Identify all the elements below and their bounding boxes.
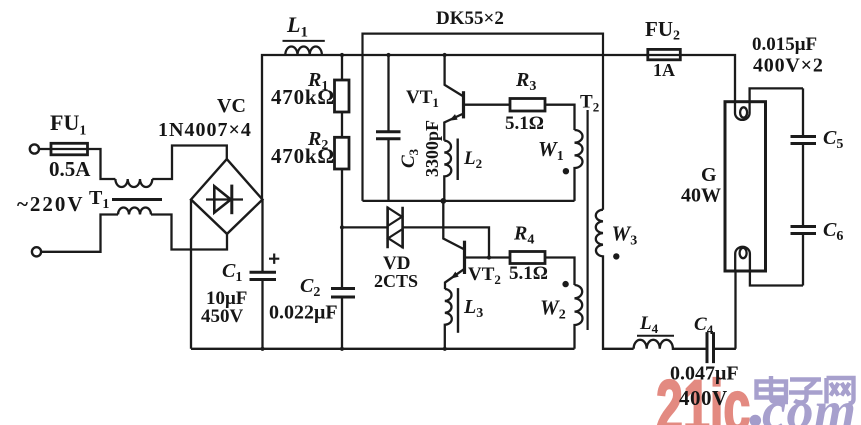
svg-text:L1: L1 — [286, 12, 308, 41]
svg-text:L2: L2 — [463, 148, 482, 171]
svg-text:com: com — [762, 381, 856, 425]
svg-text:C4: C4 — [694, 314, 714, 337]
svg-text:L3: L3 — [463, 296, 483, 321]
svg-text:FU1: FU1 — [50, 110, 86, 139]
svg-text:VT1: VT1 — [406, 87, 439, 110]
svg-text:DK55×2: DK55×2 — [436, 8, 504, 29]
svg-text:VT2: VT2 — [468, 264, 501, 287]
svg-text:G: G — [701, 164, 717, 186]
svg-text:0.5A: 0.5A — [49, 157, 91, 181]
svg-text:~220V: ~220V — [17, 192, 85, 216]
svg-text:5.1Ω: 5.1Ω — [505, 113, 544, 134]
svg-text:R4: R4 — [513, 223, 534, 248]
svg-text:T2: T2 — [580, 92, 599, 115]
svg-text:C1: C1 — [222, 260, 242, 285]
svg-text:1N4007×4: 1N4007×4 — [158, 119, 252, 141]
svg-text:C3: C3 — [398, 148, 421, 168]
svg-text:W2: W2 — [540, 296, 566, 323]
svg-text:T1: T1 — [89, 187, 109, 212]
svg-text:450V: 450V — [201, 306, 244, 327]
svg-text:VC: VC — [217, 95, 246, 117]
svg-text:0.022μF: 0.022μF — [269, 302, 338, 324]
svg-text:400V: 400V — [679, 386, 728, 410]
svg-text:FU2: FU2 — [645, 17, 680, 44]
svg-text:C2: C2 — [300, 275, 320, 300]
svg-text:400V×2: 400V×2 — [753, 55, 824, 77]
svg-text:C5: C5 — [823, 127, 843, 152]
svg-text:W1: W1 — [538, 137, 564, 164]
svg-text:5.1Ω: 5.1Ω — [509, 263, 548, 284]
svg-text:470kΩ: 470kΩ — [271, 85, 335, 109]
svg-text:0.015μF: 0.015μF — [752, 34, 817, 55]
svg-text:470kΩ: 470kΩ — [271, 144, 335, 168]
svg-text:3300pF: 3300pF — [422, 120, 442, 177]
svg-text:W3: W3 — [612, 222, 638, 249]
svg-text:2CTS: 2CTS — [374, 271, 418, 291]
svg-text:40W: 40W — [681, 185, 721, 207]
svg-text:C6: C6 — [823, 219, 843, 244]
svg-text:R3: R3 — [515, 69, 536, 94]
svg-text:0.047μF: 0.047μF — [670, 363, 739, 385]
svg-text:L4: L4 — [639, 313, 659, 336]
svg-text:1A: 1A — [653, 60, 675, 80]
